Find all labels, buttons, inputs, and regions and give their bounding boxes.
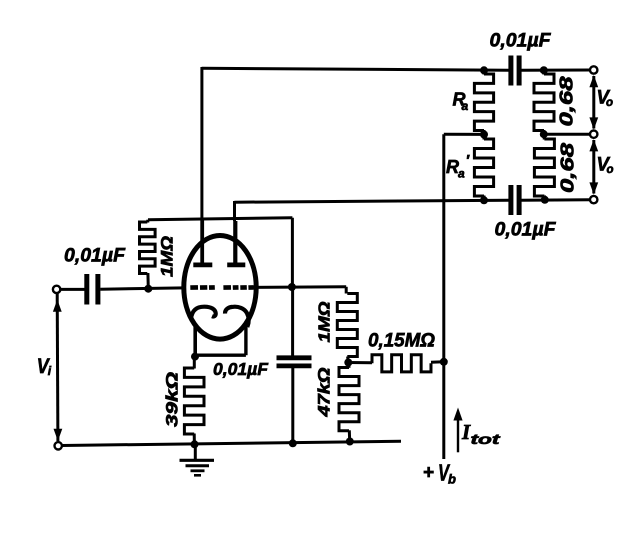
- svg-text:b: b: [448, 472, 456, 487]
- svg-text:0,68: 0,68: [557, 142, 578, 193]
- svg-text:o: o: [607, 164, 614, 176]
- svg-text:0,01µF: 0,01µF: [495, 219, 557, 241]
- svg-text:a: a: [458, 167, 465, 181]
- svg-text:0,01µF: 0,01µF: [490, 30, 552, 52]
- svg-text:39kΩ: 39kΩ: [163, 372, 182, 427]
- svg-text:tot: tot: [471, 431, 502, 447]
- svg-text:0,68: 0,68: [556, 76, 577, 127]
- svg-text:+: +: [423, 463, 434, 484]
- svg-text:0,01µF: 0,01µF: [64, 245, 126, 267]
- svg-text:I: I: [461, 420, 471, 444]
- svg-text:0,15MΩ: 0,15MΩ: [368, 330, 435, 352]
- svg-text:47kΩ: 47kΩ: [316, 367, 334, 417]
- svg-text:o: o: [606, 97, 613, 109]
- svg-text:1MΩ: 1MΩ: [158, 236, 177, 277]
- svg-text:a: a: [462, 99, 469, 113]
- svg-text:0,01µF: 0,01µF: [213, 359, 269, 379]
- svg-text:1MΩ: 1MΩ: [317, 301, 334, 343]
